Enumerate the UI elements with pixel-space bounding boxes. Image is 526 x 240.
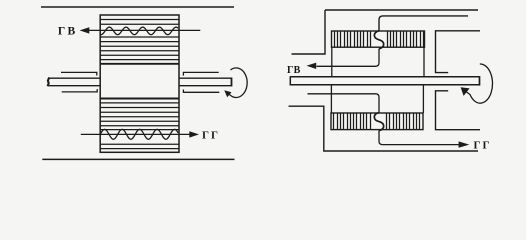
stator core outline (left machine) bbox=[100, 15, 179, 152]
rotation arrow (left machine) bbox=[228, 68, 248, 98]
lead from bottom S-link to GG arrow bbox=[379, 131, 459, 145]
winding window side wall right (bottom) bbox=[422, 85, 424, 113]
top stack bottom boundary bbox=[100, 63, 179, 65]
arrowhead GG pointing right bbox=[189, 131, 199, 137]
shaft left segment (left machine) bbox=[48, 77, 101, 86]
shaft (right machine) bbox=[290, 76, 479, 86]
wire: lower frame line of left machine bbox=[42, 158, 234, 160]
winding window side wall right (top) bbox=[423, 47, 425, 76]
excitation winding wave (top) bbox=[100, 27, 178, 35]
rotation arrowhead (left machine) bbox=[224, 90, 231, 97]
arrow line GG (output of main winding) bbox=[81, 133, 191, 135]
stator lamination lines, bottom stack bbox=[100, 103, 179, 149]
bearing bracket right-top bbox=[183, 72, 218, 75]
rotation arrow (right machine) bbox=[465, 64, 493, 103]
svg-text:ГВ: ГВ bbox=[287, 65, 301, 76]
bottom stack top boundary bbox=[100, 98, 179, 100]
arrowhead GV (right machine) bbox=[307, 63, 317, 69]
bearing bracket left-bottom bbox=[62, 89, 97, 92]
lead from S-link to GV arrow bbox=[317, 49, 380, 67]
shaft right segment (left machine) bbox=[179, 78, 232, 87]
arrowhead GG (right machine) bbox=[459, 141, 470, 147]
shaft right end cap (right machine) bbox=[479, 76, 481, 86]
frame left wall lower (right machine) bbox=[289, 106, 479, 151]
stator lamination lines, top stack bbox=[100, 20, 179, 60]
bearing hook bottom right bbox=[436, 91, 481, 130]
bearing bracket left-top bbox=[61, 72, 97, 75]
rotation arrowhead (right machine) bbox=[461, 87, 470, 96]
plain lead into bottom S-link bbox=[308, 94, 380, 113]
wire: upper frame line of left machine bbox=[41, 6, 234, 8]
outer frame top line (right machine) bbox=[325, 9, 478, 11]
svg-text:ГГ: ГГ bbox=[202, 129, 220, 141]
S-link through top winding bbox=[374, 31, 383, 49]
bearing bracket right-bottom bbox=[183, 90, 219, 93]
shaft left break cap bbox=[48, 77, 50, 86]
brush lead upper (second line, right machine) bbox=[379, 16, 468, 31]
frame left wall upper (right machine) bbox=[292, 10, 326, 54]
shaft left end cap (right machine) bbox=[289, 76, 291, 85]
svg-text:ГВ: ГВ bbox=[58, 25, 78, 37]
winding window side wall left (top) bbox=[331, 47, 333, 76]
arrow line GV (output of excitation winding) bbox=[88, 29, 200, 31]
winding window side wall left (bottom) bbox=[330, 85, 332, 113]
field winding block (bottom, right machine) bbox=[331, 113, 423, 130]
svg-text:ГГ: ГГ bbox=[474, 139, 492, 151]
shaft right end cap bbox=[231, 78, 233, 87]
field winding block (top, right machine) bbox=[332, 31, 425, 47]
third frame line with bearing hook, top right bbox=[436, 31, 481, 73]
S-link through bottom winding bbox=[374, 113, 383, 131]
arrowhead GV pointing left bbox=[80, 27, 90, 33]
main winding wave (bottom) bbox=[100, 129, 178, 139]
